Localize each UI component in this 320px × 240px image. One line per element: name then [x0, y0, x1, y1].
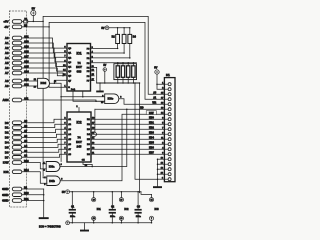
wire pad -5V [22, 26, 49, 28]
wire R1 to node 5V [28, 20, 43, 22]
wire bus stub [158, 163, 165, 165]
svg-text:D4: D4 [5, 141, 9, 145]
IC U1: IC1 74HCT688 comparator [67, 44, 91, 92]
wire jumper riser [94, 109, 96, 132]
svg-text:5V: 5V [101, 27, 104, 30]
svg-text:GND: GND [2, 187, 8, 191]
K1 pin 5 [164, 103, 168, 105]
wire A3 to IC1 [22, 53, 67, 62]
op-amp gate IC3c (74HCT08 AND) [105, 94, 119, 104]
wire vcc stub [120, 192, 122, 198]
wire R3 top [123, 28, 125, 35]
wire network top [132, 63, 134, 66]
svg-text:688: 688 [77, 69, 82, 73]
K1 pin 13 [164, 143, 168, 145]
K1 pin 6 [164, 108, 168, 110]
connector pad AEN [12, 98, 21, 102]
connector pad A5 [12, 61, 21, 65]
resistor R6 [121, 66, 124, 78]
wire D5 to IC2 [22, 144, 67, 147]
svg-text:A7: A7 [5, 71, 9, 75]
connector pad A6 [12, 66, 21, 70]
net label IOW boxed [146, 111, 156, 115]
op-amp gate IC3a (74HCT08 AND) [46, 162, 60, 172]
wire P3 rail [91, 62, 137, 64]
K1 pin 7 [164, 113, 168, 115]
svg-text:A8: A8 [5, 79, 9, 83]
wire KD3 to K1 [91, 133, 164, 135]
wire P6 stub [91, 75, 95, 77]
wire KD2 to K1 [91, 128, 164, 130]
svg-text:KD5: KD5 [149, 142, 154, 145]
wire P2 [91, 57, 130, 59]
5V supply terminal pull-up bank [105, 26, 109, 30]
wire D0 to IC2 [22, 119, 67, 123]
wire bus stub [158, 168, 165, 170]
svg-text:5V: 5V [32, 7, 36, 11]
svg-text:KD2: KD2 [149, 127, 154, 130]
wire R3 to P1 [123, 44, 125, 54]
wire network top [117, 63, 119, 66]
wire IOW to IC3a [22, 163, 46, 169]
resistor network R5-R8 [114, 64, 137, 80]
wire R2 to P0 [117, 44, 119, 49]
resistor R5 [116, 66, 119, 78]
connector pad D7 [12, 156, 21, 160]
K1 pin 3 [164, 93, 168, 95]
wire to IC3a input [43, 163, 46, 165]
svg-text:R2: R2 [112, 36, 116, 38]
K1 pin 9 [164, 123, 168, 125]
wire A4 to IC1 [22, 58, 67, 67]
svg-text:+5V: +5V [3, 20, 8, 24]
svg-text:A4: A4 [5, 56, 9, 60]
resistor R1 [24, 20, 28, 23]
svg-text:A6: A6 [5, 66, 9, 70]
wire vcc stub [151, 194, 153, 197]
svg-text:20: 20 [120, 200, 122, 202]
connector pad D6 [12, 151, 21, 155]
wire P=Q to IC3c in2 [73, 91, 105, 101]
connector pad A7 [12, 71, 21, 75]
wire to IC3b input [43, 177, 47, 179]
K1 pin 2 [164, 88, 168, 90]
connector pad GND [12, 187, 21, 191]
svg-text:2: 2 [44, 170, 46, 172]
connector pad D4 [12, 141, 21, 145]
svg-text:-5V: -5V [4, 25, 9, 29]
connector pad IOW [12, 161, 21, 165]
wire network bottom [117, 77, 119, 83]
svg-text:245: 245 [77, 145, 82, 149]
wire P5 stub [91, 70, 95, 72]
svg-text:C2: C2 [111, 205, 115, 208]
connector pad +5V [12, 20, 21, 24]
K1 pin 11 [164, 133, 168, 135]
wire IC3d output to IC1 [50, 80, 68, 83]
svg-text:100n: 100n [110, 216, 116, 218]
wire C1 bottom [71, 214, 73, 223]
5V supply terminal network [103, 68, 107, 72]
wire A1 to IC1 [22, 43, 67, 53]
5V supply terminal top-left [31, 10, 36, 15]
ground under R5-R8 [96, 91, 104, 93]
svg-text:IOR: IOR [3, 170, 9, 174]
wire D4 to IC2 [22, 139, 67, 142]
ground bottom [80, 230, 89, 232]
K1 pin 16 [164, 158, 168, 160]
wire gnd stub [120, 220, 122, 222]
wire IC3b out riser to K1 [61, 114, 165, 181]
connector pad D2 [12, 131, 21, 135]
wire gnd stub [93, 220, 95, 222]
connector pad IOR [12, 170, 21, 174]
wire D2 to IC2 [22, 129, 67, 132]
wire C2 top [111, 192, 113, 209]
wire 5V rail to pull-ups [109, 27, 130, 29]
wire GND down [43, 189, 45, 217]
svg-text:IC1: IC1 [97, 207, 102, 211]
wire KD0 to K1 [91, 118, 164, 120]
svg-text:A1: A1 [5, 41, 9, 45]
svg-text:KD7: KD7 [149, 152, 154, 155]
K1 pin 4 [164, 98, 168, 100]
svg-text:IC3 = 74HCT08: IC3 = 74HCT08 [39, 225, 61, 229]
wire bus stub [158, 158, 165, 160]
svg-text:WR: WR [152, 103, 156, 105]
K1 pin 10 [164, 128, 168, 130]
resistor R8 [132, 66, 135, 78]
wire A5 to IC1 [22, 63, 67, 71]
connector pad -5V [12, 25, 21, 29]
wire A7 joins A6 row [22, 73, 63, 76]
K1 pin 18 [164, 168, 168, 170]
wire A0 to IC1 [22, 38, 67, 48]
wire GND B1 [22, 188, 44, 190]
connector pad GND [12, 199, 21, 203]
svg-text:R4: R4 [133, 35, 137, 38]
resistor R3 [122, 34, 126, 43]
connector pad A9 [12, 84, 21, 88]
wire P4 [91, 67, 97, 83]
svg-text:C1: C1 [71, 205, 75, 208]
K1 pin 15 [164, 153, 168, 155]
wire network top [127, 63, 129, 66]
svg-text:IC1: IC1 [77, 52, 82, 56]
K1 pin 20 [164, 178, 168, 180]
svg-text:KD0: KD0 [149, 117, 154, 120]
connector pad D0 [12, 121, 21, 125]
svg-text:13: 13 [34, 86, 37, 88]
wire network bottom [122, 77, 124, 83]
svg-text:RD: RD [140, 108, 144, 110]
svg-text:A3: A3 [5, 51, 9, 55]
wire 5V to common [104, 71, 106, 83]
wire 5V to K1 pin 1 [157, 74, 164, 84]
svg-text:IC3b: IC3b [49, 179, 55, 183]
wire D6 to IC2 [22, 149, 67, 152]
wire IC1 G down [82, 91, 84, 97]
svg-text:D0: D0 [5, 121, 9, 125]
K1 pin 19 [164, 173, 168, 175]
svg-text:KD4: KD4 [149, 137, 154, 140]
svg-text:100n: 100n [136, 216, 142, 218]
wire to ground [99, 83, 101, 91]
wire IC2 DIR stub [78, 108, 80, 113]
svg-text:10: 10 [93, 218, 95, 220]
svg-text:IC2: IC2 [124, 207, 129, 211]
svg-text:5V: 5V [154, 65, 157, 69]
wire R4 top [129, 28, 131, 35]
wire to IC1 pin G [49, 86, 67, 88]
svg-text:5V: 5V [103, 64, 106, 67]
wire C3 top [137, 192, 139, 209]
connector pad GND [12, 193, 21, 197]
svg-text:KD6: KD6 [149, 147, 154, 150]
wire D7 to IC2 [22, 154, 67, 157]
wire common to K1 ground bus [135, 83, 158, 179]
K1 pin 8 [164, 118, 168, 120]
PC-bus card edge connector outline (dashed) [9, 11, 26, 207]
svg-text:IC3c: IC3c [108, 97, 114, 101]
svg-text:D3: D3 [5, 136, 9, 140]
5V supply terminal bottom rail [66, 190, 70, 194]
wire 5V rail [70, 191, 142, 193]
wire [32, 16, 34, 22]
svg-text:IC2: IC2 [77, 121, 82, 125]
wire IC2 OE [83, 162, 92, 167]
wire vcc stub [93, 192, 95, 198]
svg-text:IC3d: IC3d [40, 81, 46, 85]
ground K1 [153, 186, 162, 188]
svg-text:5V: 5V [62, 190, 65, 194]
wire P7 stub [91, 80, 95, 82]
connector pad D1 [12, 126, 21, 130]
wire KD7 to K1 [91, 153, 164, 155]
svg-text:1: 1 [76, 106, 78, 108]
ground terminal [66, 221, 70, 225]
wire AEN to IC3c [22, 100, 105, 101]
wire KD1 to K1 [91, 123, 164, 125]
wire C2 bottom [111, 214, 113, 223]
connector pad D3 [12, 136, 21, 140]
wire GND B10 [22, 194, 44, 196]
wire R4 to P2 [129, 44, 131, 58]
K1 pin 1 [164, 83, 168, 85]
svg-text:74: 74 [77, 136, 81, 140]
wire match vertical [60, 97, 62, 162]
resistor R7 [127, 66, 130, 78]
wire bus stub [158, 178, 165, 180]
svg-text:10: 10 [120, 218, 122, 220]
svg-text:D2: D2 [5, 131, 9, 135]
connector pad A2 [12, 46, 21, 50]
wire bus stub [158, 173, 165, 175]
wire IC3a out riser [60, 109, 127, 166]
wire KD4 to K1 [91, 138, 164, 140]
svg-text:7: 7 [151, 218, 152, 220]
wire jumper on KD3 [91, 132, 96, 136]
svg-text:GND: GND [2, 193, 8, 197]
wire K1 ground bus [157, 159, 159, 186]
svg-text:IC3a: IC3a [49, 165, 55, 169]
wire network bottom [132, 77, 134, 83]
svg-text:11: 11 [54, 81, 57, 83]
wire gnd stub [151, 220, 153, 222]
resistor R2 [116, 34, 120, 43]
wire D1 to IC2 [22, 124, 67, 127]
connector K1 [164, 78, 175, 182]
resistor R4 [128, 34, 132, 43]
svg-text:5: 5 [44, 184, 46, 186]
svg-text:GND: GND [2, 199, 8, 203]
connector pad A4 [12, 56, 21, 60]
wire D3 to IC2 [22, 134, 67, 137]
wire A9 to IC3d [22, 85, 38, 87]
svg-text:C3: C3 [137, 205, 141, 208]
svg-text:3: 3 [61, 164, 63, 166]
svg-text:A5: A5 [5, 61, 9, 65]
wire A6 to IC1 [22, 68, 67, 76]
ground bus bar [39, 217, 49, 219]
wire network bottom [127, 77, 129, 83]
op-amp gate IC3b (74HCT08 AND) [47, 176, 60, 186]
svg-text:P=Q: P=Q [71, 89, 76, 91]
wire IC3c out to K1 [119, 99, 164, 105]
svg-text:8: 8 [120, 96, 122, 98]
svg-text:KD1: KD1 [149, 122, 154, 125]
connector pad A8 [12, 79, 21, 83]
svg-text:100n: 100n [70, 216, 76, 218]
wire C1 top [71, 192, 73, 209]
wire KD5 to K1 [91, 143, 164, 145]
svg-text:D6: D6 [5, 151, 9, 155]
wire KD6 to K1 [91, 148, 164, 150]
connector pad A3 [12, 51, 21, 55]
op-amp gate IC3d (74HCT08 AND) [38, 78, 50, 88]
svg-text:A2: A2 [5, 46, 9, 50]
wire R2 top [117, 28, 119, 35]
connector pad D5 [12, 146, 21, 150]
wire 5V to K1 pin 2 [157, 84, 164, 89]
wire bus H1 (+5V / select) [43, 16, 164, 163]
wire network top [122, 63, 124, 66]
svg-text:K1: K1 [166, 73, 170, 77]
connector pad A1 [12, 41, 21, 45]
wire bus H2 (-5V) [49, 22, 164, 99]
K1 pin 17 [164, 163, 168, 165]
5V supply terminal K1 supply [155, 70, 159, 74]
svg-text:AEN: AEN [2, 98, 8, 102]
wire match to IC3c in1 [61, 96, 105, 98]
wire IOR to IC3b [22, 172, 47, 183]
wire P0 [91, 47, 118, 49]
wire rail to ground [84, 223, 86, 230]
wire common rail [97, 82, 140, 84]
svg-text:A0: A0 [5, 36, 9, 40]
svg-text:D1: D1 [5, 126, 9, 130]
wire P1 [91, 52, 125, 54]
wire C3 bottom [137, 214, 139, 223]
svg-text:IC3: IC3 [155, 207, 160, 211]
wire ground rail [70, 222, 152, 224]
wire A2 to IC1 [22, 48, 67, 57]
svg-text:IOW: IOW [3, 161, 9, 165]
svg-text:KD3: KD3 [149, 132, 154, 135]
svg-text:A9: A9 [5, 84, 9, 88]
wire match branch down [54, 83, 61, 97]
wire GND B31 [22, 200, 44, 202]
connector pad A0 [12, 36, 21, 40]
wire A8 to IC3d [22, 80, 38, 82]
wire common to 5V rail [139, 83, 141, 193]
svg-text:HCT: HCT [76, 140, 82, 144]
svg-text:D7: D7 [5, 155, 9, 159]
wire RD line to K1 [95, 108, 164, 110]
K1 pin 12 [164, 138, 168, 140]
svg-text:D5: D5 [5, 146, 9, 150]
svg-text:20: 20 [93, 200, 95, 202]
wire rail jog to IC3 cell [141, 192, 152, 195]
IC U2: IC2 74HCT245 bus transceiver [67, 112, 91, 162]
svg-text:6: 6 [61, 179, 63, 181]
wire V1 lower [42, 164, 44, 178]
svg-text:10: 10 [101, 102, 104, 104]
K1 pin 14 [164, 148, 168, 150]
wire pad +5V to R1 [22, 21, 24, 23]
